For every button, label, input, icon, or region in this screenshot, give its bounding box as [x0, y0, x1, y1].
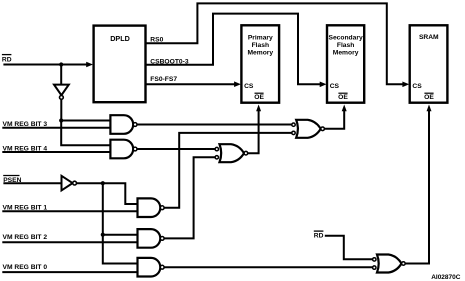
- nand gate G5 (VM REG BIT 0): [138, 258, 165, 277]
- wire G4 output to G6 bottom input: [164, 157, 215, 238]
- arrowhead into Primary Flash CS: [234, 81, 241, 87]
- svg-text:Primary: Primary: [248, 34, 273, 41]
- wire inverted PSEN to gate G5 input: [103, 235, 138, 264]
- Primary Flash Memory box: [241, 25, 279, 102]
- svg-text:RD: RD: [314, 232, 324, 239]
- wire RD down to inverter: [60, 65, 62, 85]
- wire G6 output to Primary Flash OE: [247, 111, 258, 154]
- wire RD to DPLD: [3, 64, 88, 66]
- wire inverted PSEN to gate G4 input: [103, 234, 138, 236]
- wire PSEN to inverter: [3, 182, 61, 184]
- svg-text:VM REG BIT 0: VM REG BIT 0: [3, 264, 48, 271]
- arrowhead into Secondary Flash OE: [342, 105, 347, 112]
- svg-text:Flash: Flash: [252, 42, 269, 49]
- arrowhead into SRAM CS: [402, 82, 409, 88]
- inverter U3 (PSEN): [62, 176, 77, 191]
- nand gate G2 (VM REG BIT 4): [110, 140, 137, 159]
- Secondary Flash Memory box: [327, 25, 364, 102]
- wire inverted RD to gate G1 input: [61, 120, 110, 122]
- svg-text:OE: OE: [338, 94, 348, 101]
- wire VM REG BIT 2 to gate G4: [2, 241, 137, 243]
- svg-text:Memory: Memory: [333, 50, 359, 57]
- junction on RD line: [59, 62, 63, 66]
- svg-text:SRAM: SRAM: [419, 34, 439, 41]
- inverter U2 (RD, pointing down): [54, 85, 69, 100]
- wire G5 output to G8 bottom input: [164, 266, 372, 268]
- nand gate G4 (VM REG BIT 2): [138, 229, 165, 248]
- junction inverted PSEN lower: [101, 233, 105, 237]
- arrowhead into DPLD RD input: [86, 62, 93, 68]
- signal label RD (overbar) bottom-right: [314, 231, 324, 239]
- wire G7 output to Secondary Flash OE: [324, 111, 344, 129]
- svg-text:RD: RD: [2, 57, 12, 64]
- wire CSBOOT0-3 to Secondary Flash CS: [146, 14, 324, 85]
- svg-text:DPLD: DPLD: [110, 34, 130, 43]
- wire G2 output to G6 top input: [137, 148, 215, 150]
- wire RS0 to SRAM CS: [146, 3, 406, 84]
- wire inverted PSEN to gate G3 input: [77, 183, 138, 204]
- svg-text:Secondary: Secondary: [328, 34, 362, 41]
- wire RD to G8 top input: [325, 236, 373, 259]
- svg-text:OE: OE: [424, 94, 434, 101]
- svg-text:CS: CS: [412, 83, 422, 90]
- svg-text:VM REG BIT 2: VM REG BIT 2: [3, 234, 48, 241]
- wire VM REG BIT 4 to gate G2: [2, 151, 110, 153]
- svg-text:Flash: Flash: [337, 42, 354, 49]
- SRAM box: [410, 25, 448, 102]
- svg-text:OE: OE: [254, 94, 264, 101]
- svg-text:CS: CS: [330, 83, 340, 90]
- wire VM REG BIT 1 to gate G3: [2, 210, 137, 212]
- wire inverted RD to gate G2 input: [61, 121, 110, 146]
- negative-OR gate G6 (primary OE): [215, 144, 248, 162]
- nand gate G3 (VM REG BIT 1): [138, 198, 165, 217]
- DPLD box: [94, 26, 146, 103]
- wire VM REG BIT 3 to gate G1: [2, 127, 110, 129]
- svg-text:CS: CS: [244, 83, 254, 90]
- wire G1 output to G7 top input: [137, 124, 292, 126]
- wire inverted PSEN down: [102, 183, 104, 235]
- arrowhead into SRAM OE: [427, 105, 432, 112]
- junction inverted RD: [59, 118, 63, 122]
- wire VM REG BIT 0 to gate G5: [2, 271, 137, 273]
- arrowhead into Primary Flash OE: [256, 105, 261, 112]
- negative-OR gate G7 (secondary OE): [292, 120, 325, 138]
- signal label RD (overbar) top-left: [2, 55, 12, 64]
- wire inverted RD down: [60, 99, 62, 120]
- signal label PSEN (overbar): [3, 176, 21, 184]
- arrowhead into Secondary Flash CS: [320, 82, 327, 88]
- wire G3 output to G7 bottom input: [164, 133, 292, 208]
- negative-OR gate G8 (SRAM OE): [373, 255, 406, 273]
- svg-text:Memory: Memory: [247, 50, 273, 57]
- nand gate G1 (VM REG BIT 3): [110, 115, 137, 134]
- wire G8 output to SRAM OE: [405, 111, 429, 264]
- svg-text:FS0-FS7: FS0-FS7: [150, 76, 177, 83]
- wire FS0-FS7 to Primary Flash CS: [146, 83, 238, 85]
- junction inverted PSEN: [101, 181, 105, 185]
- svg-text:AI02870C: AI02870C: [431, 274, 461, 281]
